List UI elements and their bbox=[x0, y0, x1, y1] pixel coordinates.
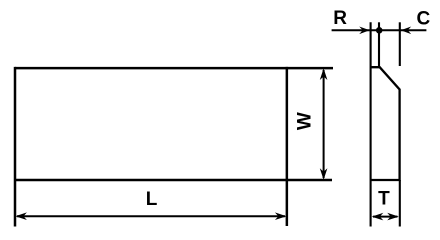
dimension line L bbox=[17, 215, 285, 217]
extension line T right bbox=[399, 180, 401, 227]
blade side view: right edge with L extension line bbox=[286, 67, 289, 226]
arrowhead T left bbox=[372, 213, 384, 221]
svg-text:T: T bbox=[378, 189, 390, 210]
common origin dot R/C bbox=[376, 27, 383, 34]
arrowhead L left bbox=[15, 212, 27, 220]
dimension line W bbox=[323, 70, 325, 178]
arrowhead L right bbox=[275, 212, 287, 220]
dimension line T bbox=[373, 216, 397, 218]
arrowhead R (points right) bbox=[359, 27, 370, 35]
svg-text:R: R bbox=[333, 8, 347, 29]
blade side view: top edge with W extension line bbox=[15, 67, 333, 70]
blade cross-section outline (top land, chamfer, right edge, bottom) bbox=[371, 67, 400, 180]
arrowhead C (points left) bbox=[401, 27, 412, 35]
arrowhead W top bbox=[320, 68, 328, 80]
dimension line R/C bbox=[332, 29, 427, 31]
blade side view: left edge with L extension line bbox=[14, 67, 17, 227]
blade side view: bottom edge with W extension line bbox=[15, 179, 332, 182]
svg-text:C: C bbox=[417, 8, 431, 29]
svg-text:W: W bbox=[295, 112, 316, 130]
cross-section left edge with R and T extension line bbox=[370, 22, 372, 226]
extension line R/C common point bbox=[378, 22, 380, 67]
extension line C right bbox=[399, 22, 401, 66]
svg-text:L: L bbox=[146, 189, 158, 210]
arrowhead W bottom bbox=[320, 168, 328, 180]
arrowhead T right bbox=[387, 213, 399, 221]
